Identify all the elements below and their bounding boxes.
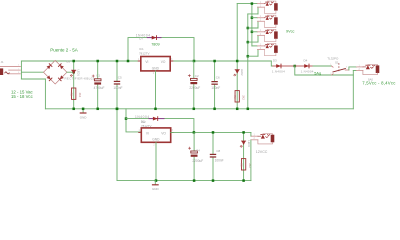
svg-text:VI: VI [146,132,149,136]
svg-text:GND: GND [152,66,160,70]
wire: rows 2-4 pin1 feeds [252,17,258,19]
resistor R8 [240,159,252,170]
svg-text:2K2: 2K2 [78,93,82,98]
wire: ladder top feed [237,3,257,5]
connector J1 [0,60,20,75]
svg-text:1N4004: 1N4004 [135,115,150,119]
svg-text:B1: B1 [67,59,71,63]
svg-text:100nF: 100nF [211,86,220,90]
ground symbol upper [80,109,88,120]
LED2 indicator [234,69,244,76]
wire: LED3 column [243,132,245,180]
wire: cathode return bus V-mid [247,14,249,109]
svg-text:R6: R6 [233,95,237,99]
wire: main VO rail y=61 [21,60,271,62]
wire: IC1 input vertical from J1 [20,61,22,79]
LED9 + R7 output indicator [357,64,380,74]
svg-text:1.N4004: 1.N4004 [272,69,285,73]
capacitor C2 [188,61,200,109]
capacitor C5 [113,61,122,109]
wire: mid-diode tap down and to switch bottom throw [295,66,354,75]
LED8 + R4 row 4 [258,43,278,55]
wire: AC down to ground rail [44,79,46,109]
resistor R5 [70,88,82,99]
wire: lower output jog [250,132,253,136]
svg-text:1N4004: 1N4004 [136,34,151,38]
svg-text:7809: 7809 [151,42,159,46]
wire: row bottom links [248,14,258,56]
svg-text:C1: C1 [96,74,100,78]
wire: bridge + output to LED1 column [67,71,74,73]
wire: inner bus [251,4,253,46]
svg-text:1.N4004: 1.N4004 [301,69,314,73]
svg-text:100nF: 100nF [215,159,224,163]
node: LED1 bottom / bridge [72,71,75,74]
svg-text:VO: VO [161,60,166,64]
svg-text:C5: C5 [118,75,122,79]
wire: feed down to lower rail [116,109,118,181]
wire: rail corner down into diode row [271,61,273,66]
wire: J1 pin3 to bridge left vertex [21,71,43,73]
capacitor C4 [189,132,204,180]
svg-text:7812TV: 7812TV [139,51,150,55]
capacitor C1 [92,61,104,109]
svg-text:S1: S1 [335,61,339,65]
wire: IC2 GND down [155,142,157,180]
wire: switch common jog up to output pin1 [349,67,357,70]
voltage regulator IC1 [138,47,173,75]
diode D7 with purple lead [136,34,161,41]
svg-text:LED1: LED1 [77,70,81,77]
svg-text:12VCC: 12VCC [256,150,268,154]
svg-text:LED3: LED3 [247,140,251,147]
svg-text:D4: D4 [304,59,308,63]
switch S1 TL32PO [327,56,349,75]
wire: output pin2 node and return [353,70,356,72]
diode D4 [295,59,314,74]
node: column / ground rail [72,108,75,111]
svg-text:J1: J1 [1,60,4,64]
wire: lower rail [117,180,251,182]
diode D3 [272,59,295,74]
wire: lower combo pin2 return [250,140,252,181]
LED7 + R3 row 3 [258,29,278,41]
svg-text:2K2: 2K2 [241,95,245,100]
resistor R6 [233,91,245,102]
wire: ground rail y=108.8 [45,108,353,110]
wire: LED2 column + ladder feed V1 [236,4,238,109]
svg-text:VO: VO [161,132,166,136]
svg-text:R8: R8 [240,163,244,167]
node: between D3 and D4 [294,65,297,68]
svg-text:D3: D3 [273,59,277,63]
wire: IC2 VI feed [126,109,141,132]
svg-text:VI: VI [145,60,148,64]
diode D2 with purple lead [135,115,164,123]
svg-text:D7: D7 [139,37,143,41]
wire: IC1 GND pin down [155,71,157,109]
svg-text:2200uF: 2200uF [192,159,203,163]
svg-text:C8: C8 [216,149,220,153]
svg-text:C6: C6 [216,76,220,80]
capacitor C6 [211,61,220,109]
svg-text:5Ag: 5Ag [314,72,321,76]
capacitor C8 [210,132,224,180]
svg-text:100nF: 100nF [113,86,122,90]
svg-text:15 - 18 Vcc: 15 - 18 Vcc [11,94,34,99]
LED5 + R1 row 1 [258,1,278,13]
svg-text:9Vcc: 9Vcc [286,29,295,33]
node: rail / LED1 column [72,60,75,63]
wire: LED1/R5 column [73,61,75,109]
LED1 indicator [70,70,80,77]
LED6 + R2 row 2 [258,15,278,27]
ground symbol lower [152,181,160,192]
voltage regulator IC2 [139,120,174,146]
svg-text:C4: C4 [196,148,200,152]
LED3 indicator lower [240,140,251,147]
svg-text:Puente 2 - 5A: Puente 2 - 5A [50,47,78,52]
svg-text:C2: C2 [195,74,199,78]
wire: D4 out to switch top throw [313,65,332,67]
svg-text:7,5Vcc - 8,4Vcc: 7,5Vcc - 8,4Vcc [362,81,396,86]
wire: D2 bypass loop [126,119,194,133]
wire: D7 bypass loop [128,38,194,61]
bridge rectifier B1 [44,59,95,84]
svg-text:LED2: LED2 [240,69,244,76]
svg-text:GND: GND [152,138,160,142]
svg-text:4700uF: 4700uF [94,86,105,90]
wire: J1 bottom AC run [21,78,45,80]
wire: IC2 VO rail [171,131,251,133]
svg-text:2200uF: 2200uF [189,86,200,90]
LED10 + R9 lower output indicator [252,134,275,144]
svg-text:R5: R5 [70,93,74,97]
svg-text:RECTIFIER-KBL02: RECTIFIER-KBL02 [65,76,95,80]
